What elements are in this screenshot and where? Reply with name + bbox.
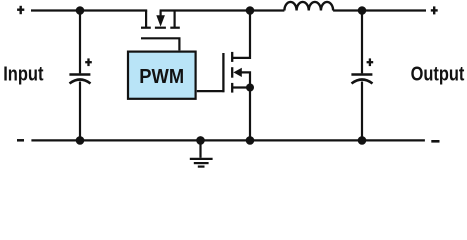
- junction dot: bottom rail / ground: [196, 136, 205, 145]
- capacitor C2: curved plate: [352, 80, 373, 84]
- transistor Q1: drain contact plate: [170, 27, 180, 29]
- capacitor C2 output: top lead: [361, 11, 363, 74]
- svg-text:PWM: PWM: [139, 66, 184, 88]
- transistor Q2: source stub: [232, 86, 250, 88]
- transistor Q1 high-side P-MOSFET: source lead: [145, 11, 147, 28]
- junction dot: bottom rail / C2: [358, 136, 367, 145]
- transistor Q2: channel segment drain: [231, 52, 233, 62]
- svg-text:Input: Input: [3, 62, 43, 85]
- inductor L1: [284, 2, 333, 11]
- capacitor C1: straight + plate: [69, 73, 90, 75]
- ground: stem: [199, 140, 201, 157]
- ground: bar 3: [198, 166, 205, 168]
- capacitor C1: polarity plus: [85, 58, 92, 66]
- junction dot: bottom rail / C1: [76, 136, 85, 145]
- wire: top rail segment inductor to output +: [333, 9, 426, 11]
- transistor Q2: body arrow (points left into channel): [233, 68, 250, 88]
- wire: bottom rail: [31, 139, 425, 141]
- node V- output: minus label bottom-right: [431, 140, 439, 143]
- transistor Q1: drain lead: [174, 11, 176, 28]
- transistor Q2: channel segment body: [231, 67, 233, 78]
- transistor Q2: drain stub and drain wire up to top rail: [232, 11, 250, 58]
- capacitor C1: bottom lead: [79, 82, 81, 141]
- transistor Q1: gate bar and gate lead to PWM: [141, 38, 179, 50]
- capacitor C2: polarity plus: [367, 58, 374, 66]
- PWM controller U1: box: [128, 52, 196, 99]
- junction dot: bottom rail / Q2 source: [246, 136, 255, 145]
- transistor Q1: body arrow (points down): [156, 11, 165, 27]
- wire: PWM output to Q2 gate: [197, 90, 225, 92]
- capacitor C2: straight + plate: [351, 73, 372, 75]
- capacitor C2: bottom lead: [361, 82, 363, 141]
- transistor Q1: body contact plate: [155, 27, 166, 29]
- transistor Q2: channel segment source: [231, 83, 233, 93]
- ground: bar 1: [190, 158, 213, 160]
- transistor Q1: source contact plate: [141, 27, 151, 29]
- capacitor C1: curved plate: [70, 80, 91, 84]
- junction dot: top rail / Q2 drain / L1: [246, 6, 255, 15]
- ground: bar 2: [194, 162, 209, 164]
- capacitor C1 input: top lead: [79, 11, 81, 74]
- junction: Q2 source/body tie: [246, 84, 254, 92]
- transistor Q2 low-side N-MOSFET: gate bar: [222, 53, 224, 92]
- node V+ output: plus label top-right: [431, 6, 438, 14]
- node V- input: minus label bottom-left: [17, 139, 24, 142]
- wire: top rail right segment (Q1 drain to inductor): [160, 9, 285, 11]
- junction dot: top rail / C1: [76, 6, 85, 15]
- wire: Q2 source down to bottom rail: [249, 88, 251, 141]
- node V+ input: plus label top-left: [17, 6, 24, 14]
- svg-text:Output: Output: [411, 62, 465, 85]
- junction dot: top rail / L1 / C2: [358, 6, 367, 15]
- wire: top rail left segment (input + to Q1 source): [31, 9, 147, 11]
